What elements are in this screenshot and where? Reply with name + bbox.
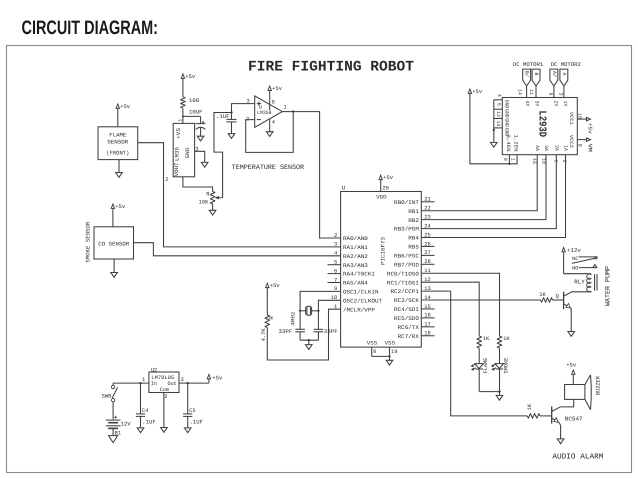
svg-text:.1UF: .1UF bbox=[216, 113, 229, 120]
wire RC3 to relay driver bbox=[421, 299, 540, 301]
svg-text:16: 16 bbox=[577, 113, 583, 119]
svg-text:SMOKE SENSOR: SMOKE SENSOR bbox=[85, 221, 92, 263]
svg-text:4MHz: 4MHz bbox=[291, 312, 297, 326]
svg-text:PIC16F73: PIC16F73 bbox=[380, 237, 386, 265]
crystal 4MHz label bbox=[291, 312, 297, 326]
wire RB4 to L293D 1A bbox=[421, 155, 565, 238]
svg-text:B/: B/ bbox=[524, 71, 530, 77]
svg-text:RA2/AN2: RA2/AN2 bbox=[343, 253, 368, 260]
LED smoke bbox=[491, 348, 509, 391]
ground pot 10K bbox=[209, 204, 216, 215]
transistor BC547 bbox=[552, 406, 583, 439]
wire RC0 to smoke LED bbox=[421, 273, 499, 336]
svg-text:4A: 4A bbox=[534, 145, 540, 151]
transistor Q relay driver bbox=[556, 291, 591, 332]
capacitor .1UF temp bbox=[216, 111, 237, 133]
svg-text:CO SENSOR: CO SENSOR bbox=[98, 240, 130, 247]
schematic title bbox=[248, 60, 414, 76]
svg-text:1K: 1K bbox=[503, 336, 510, 342]
ground opamp pin 4 bbox=[266, 119, 275, 137]
potentiometer R 10K bbox=[199, 192, 223, 206]
svg-text:3: 3 bbox=[246, 99, 249, 105]
pin stubs PIC right bbox=[421, 202, 434, 336]
ground relay transistor bbox=[568, 332, 575, 337]
wire LED cathodes join bbox=[479, 390, 500, 395]
capacitor 10UF polarized bbox=[183, 109, 206, 137]
svg-text:RB6/PGC: RB6/PGC bbox=[394, 252, 420, 259]
svg-text:13: 13 bbox=[495, 120, 501, 126]
svg-text:NC: NC bbox=[572, 256, 578, 262]
svg-text:1Y: 1Y bbox=[562, 100, 568, 106]
pin 3 opamp bbox=[246, 99, 249, 105]
svg-text:10UF: 10UF bbox=[189, 109, 202, 116]
wire flame sensor to RA1 bbox=[138, 143, 341, 247]
ground C5 bbox=[184, 428, 191, 433]
pin 3 LM35 GND bbox=[195, 147, 205, 163]
svg-text:9: 9 bbox=[502, 158, 508, 161]
op-amp U1 LM358 bbox=[255, 96, 283, 127]
audio alarm label bbox=[552, 452, 603, 461]
svg-text:+5v: +5v bbox=[566, 362, 577, 369]
buzzer BZ1 bbox=[565, 375, 602, 410]
ground LEDs bbox=[496, 395, 503, 400]
svg-text:RB4: RB4 bbox=[408, 235, 419, 242]
svg-text:8: 8 bbox=[373, 349, 376, 355]
svg-text:8: 8 bbox=[577, 144, 583, 147]
svg-text:+5v: +5v bbox=[185, 73, 196, 80]
power +5v buzzer bbox=[566, 362, 577, 385]
svg-text:4.7K: 4.7K bbox=[261, 328, 267, 342]
svg-text:Out: Out bbox=[168, 381, 177, 387]
svg-text:19: 19 bbox=[391, 349, 397, 355]
svg-text:12V: 12V bbox=[121, 421, 132, 428]
pin 1 opamp output bbox=[282, 105, 294, 113]
svg-text:1: 1 bbox=[284, 105, 287, 111]
svg-text:Com: Com bbox=[160, 387, 169, 393]
svg-text:VCC1: VCC1 bbox=[568, 112, 574, 125]
L293D VCC2 pin 8 VM bbox=[568, 135, 594, 152]
relay coil RLY bbox=[564, 274, 597, 292]
svg-text:RB2: RB2 bbox=[408, 217, 419, 224]
microcontroller U3 PIC16F73 bbox=[331, 185, 431, 348]
wire RC2 to audio alarm bbox=[421, 291, 527, 416]
svg-text:1K: 1K bbox=[483, 336, 490, 342]
crystal Y1 4MHz bbox=[300, 306, 318, 315]
svg-text:RC5/SDO: RC5/SDO bbox=[394, 315, 420, 322]
flame sensor box bbox=[98, 127, 138, 160]
svg-text:VCC2: VCC2 bbox=[568, 135, 574, 148]
resistor 1K audio base bbox=[527, 403, 552, 418]
resistor 1K relay base bbox=[539, 292, 563, 302]
resistor 1K smoke LED bbox=[497, 336, 510, 348]
wire OSC1 to crystal bbox=[299, 291, 341, 312]
svg-text:2Y: 2Y bbox=[552, 100, 558, 106]
svg-text:GND: GND bbox=[185, 148, 191, 159]
wire buzzer to collector bbox=[560, 399, 574, 407]
temperature sensor label bbox=[232, 164, 304, 172]
capacitor C5 .1UF bbox=[183, 382, 203, 428]
switch SWB bbox=[102, 383, 118, 419]
svg-text:1: 1 bbox=[142, 377, 145, 383]
ground flame sensor bbox=[116, 160, 123, 178]
L293D input labels bottom bbox=[531, 145, 569, 164]
svg-text:CIRCUIT DIAGRAM:: CIRCUIT DIAGRAM: bbox=[22, 17, 159, 39]
svg-text:In: In bbox=[151, 381, 157, 387]
svg-text:4Y: 4Y bbox=[524, 100, 530, 106]
svg-text:2: 2 bbox=[165, 177, 168, 183]
svg-text:RB0/INT: RB0/INT bbox=[394, 199, 420, 206]
svg-text:RA3/AN3: RA3/AN3 bbox=[343, 262, 368, 269]
svg-text:SENSOR: SENSOR bbox=[107, 139, 129, 146]
wire opamp feedback bbox=[246, 112, 294, 153]
svg-text:2A: 2A bbox=[553, 145, 559, 151]
svg-text:.1UF: .1UF bbox=[190, 418, 203, 425]
svg-text:RC3/SCK: RC3/SCK bbox=[394, 297, 420, 304]
svg-text:3: 3 bbox=[181, 377, 184, 383]
wire to opamp noninverting input bbox=[232, 104, 255, 113]
svg-text:BC547: BC547 bbox=[565, 416, 583, 423]
pin 2 LM35 VOUT bbox=[165, 177, 168, 183]
ground .1UF cap bbox=[228, 134, 235, 139]
svg-text:A/: A/ bbox=[551, 71, 557, 77]
svg-text:L293D: L293D bbox=[536, 111, 548, 138]
ground BC547 bbox=[557, 439, 564, 444]
wire RC1 to flame LED bbox=[421, 282, 479, 336]
L293D output pins top bbox=[517, 86, 568, 107]
ground L293D bbox=[491, 142, 498, 147]
wire OSC2 to crystal bbox=[317, 300, 340, 312]
pins VSS 8 19 and ground bbox=[372, 347, 398, 360]
wire pot wiper to opamp input bbox=[214, 113, 232, 198]
svg-text:VSS: VSS bbox=[385, 341, 396, 347]
svg-text:1,2EN: 1,2EN bbox=[513, 135, 519, 152]
wire RB2 to L293D 3A bbox=[421, 155, 546, 220]
svg-text:+5v: +5v bbox=[472, 88, 483, 95]
svg-text:33PF: 33PF bbox=[324, 328, 338, 335]
svg-text:C5: C5 bbox=[189, 408, 195, 414]
svg-text:B: B bbox=[533, 72, 539, 75]
svg-text:RC4/SDI: RC4/SDI bbox=[394, 306, 419, 313]
L293D VCC1 pin 16 +5v bbox=[568, 112, 594, 134]
svg-text:3A: 3A bbox=[543, 145, 549, 151]
svg-text:2: 2 bbox=[561, 159, 567, 162]
wire LM35 VOUT to pot bbox=[183, 177, 213, 192]
svg-text:11: 11 bbox=[528, 89, 534, 95]
svg-text:4: 4 bbox=[334, 251, 337, 257]
svg-text:1K: 1K bbox=[527, 403, 533, 410]
svg-text:10: 10 bbox=[540, 158, 546, 164]
svg-text:Q: Q bbox=[556, 294, 559, 300]
svg-text:4: 4 bbox=[272, 120, 275, 126]
svg-text:LM35: LM35 bbox=[174, 147, 180, 161]
motor driver U4 L293D bbox=[502, 98, 577, 155]
svg-text:AUDIO ALARM: AUDIO ALARM bbox=[552, 452, 603, 461]
power +5v VDD pin 20 bbox=[379, 174, 394, 191]
wire resistor to LM35 bbox=[182, 108, 184, 123]
svg-text:RB1: RB1 bbox=[408, 208, 419, 215]
svg-text:15: 15 bbox=[531, 158, 537, 164]
capacitor 33PF left bbox=[278, 311, 305, 340]
svg-text:RC0/T1OSO: RC0/T1OSO bbox=[387, 270, 420, 277]
svg-text:6: 6 bbox=[547, 92, 553, 95]
relay contacts NC NO bbox=[572, 256, 598, 271]
svg-text:+5v: +5v bbox=[120, 103, 131, 110]
power +12v relay bbox=[562, 247, 582, 274]
svg-text:VOUT: VOUT bbox=[174, 162, 180, 177]
svg-text:VM: VM bbox=[586, 144, 593, 152]
svg-text:SMOKE: SMOKE bbox=[504, 358, 510, 374]
wire CO sensor to RA2 bbox=[134, 243, 341, 256]
svg-text:/MCLR/VPP: /MCLR/VPP bbox=[343, 306, 376, 313]
svg-text:FIRE FIGHTING ROBOT: FIRE FIGHTING ROBOT bbox=[248, 60, 414, 76]
resistor 100 bbox=[181, 97, 200, 108]
svg-text:VDD: VDD bbox=[376, 195, 387, 201]
svg-text:7: 7 bbox=[552, 159, 558, 162]
svg-text:33PF: 33PF bbox=[278, 328, 292, 335]
svg-text:GND: GND bbox=[504, 100, 510, 109]
svg-text:12: 12 bbox=[495, 111, 501, 117]
svg-text:2: 2 bbox=[334, 233, 337, 239]
CO sensor box bbox=[94, 227, 134, 259]
svg-text:RA1/AN1: RA1/AN1 bbox=[343, 244, 369, 251]
power +5v flame sensor bbox=[116, 103, 131, 127]
regulator U2 LM78L05 bbox=[149, 367, 179, 393]
svg-text:C4: C4 bbox=[142, 408, 148, 414]
svg-text:RC1/T1OSI: RC1/T1OSI bbox=[387, 279, 419, 286]
svg-text:3,4EN: 3,4EN bbox=[505, 135, 511, 152]
svg-text:2: 2 bbox=[164, 394, 167, 400]
ground regulator bbox=[161, 428, 168, 433]
L293D GND pins 4 5 12 13 bbox=[493, 94, 510, 143]
svg-text:3: 3 bbox=[558, 92, 564, 95]
svg-text:LM358: LM358 bbox=[257, 110, 272, 116]
svg-text:1A: 1A bbox=[563, 145, 569, 151]
power +5v temperature chain bbox=[181, 73, 196, 97]
battery B1 12V bbox=[106, 416, 132, 437]
pin 1 LM35 +VS bbox=[178, 119, 184, 122]
wire RB1 to L293D 4A bbox=[421, 155, 537, 211]
svg-text:3Y: 3Y bbox=[533, 100, 539, 106]
wire MCLR pullup to pin 1 bbox=[267, 309, 340, 360]
svg-text:RC6/TX: RC6/TX bbox=[398, 324, 420, 331]
svg-text:RC2/CCP1: RC2/CCP1 bbox=[391, 288, 420, 295]
svg-text:BUZZER: BUZZER bbox=[595, 375, 601, 395]
svg-text:4: 4 bbox=[496, 94, 502, 97]
wire regulator output bbox=[179, 377, 209, 383]
wire opamp output to RA0 bbox=[293, 112, 340, 238]
svg-text:+VS: +VS bbox=[176, 128, 182, 139]
power +5v L293D enable bbox=[468, 88, 517, 165]
svg-text:RB7/PGD: RB7/PGD bbox=[394, 261, 420, 268]
svg-text:+5v: +5v bbox=[115, 203, 126, 210]
svg-text:NO: NO bbox=[572, 266, 578, 272]
svg-text:3: 3 bbox=[334, 242, 337, 248]
power +5v opamp pin 8 bbox=[268, 85, 283, 110]
ground crystal bbox=[306, 345, 313, 350]
L293D EN pins 9 1 bbox=[502, 135, 519, 161]
connector DC MOTOR2 bbox=[550, 61, 581, 86]
pin 2 regulator ground bbox=[164, 393, 168, 428]
resistor 1K flame LED bbox=[477, 336, 490, 348]
ground PIC VSS bbox=[386, 360, 393, 365]
svg-text:DC MOTOR1: DC MOTOR1 bbox=[513, 61, 544, 68]
svg-text:OSC2/CLKOUT: OSC2/CLKOUT bbox=[343, 297, 383, 304]
power +5v CO sensor bbox=[111, 203, 126, 227]
resistor R 4.7K bbox=[261, 315, 275, 341]
svg-text:VSS: VSS bbox=[367, 341, 378, 347]
water pump label bbox=[605, 266, 613, 306]
svg-text:RA0/AN0: RA0/AN0 bbox=[343, 235, 369, 242]
svg-text:5: 5 bbox=[496, 103, 502, 106]
svg-text:.1UF: .1UF bbox=[142, 418, 155, 425]
pin stubs PIC left bbox=[328, 265, 341, 283]
svg-text:+5v: +5v bbox=[383, 174, 394, 181]
smoke sensor label bbox=[85, 221, 92, 263]
svg-text:+5v: +5v bbox=[270, 282, 281, 289]
svg-text:20: 20 bbox=[382, 185, 388, 191]
LED flame bbox=[471, 348, 489, 391]
svg-text:(FRONT): (FRONT) bbox=[106, 150, 129, 157]
svg-text:+12v: +12v bbox=[567, 247, 581, 254]
svg-text:1: 1 bbox=[510, 158, 516, 161]
wire crystal caps join bbox=[300, 339, 318, 345]
page title bbox=[22, 17, 159, 39]
connector DC MOTOR1 bbox=[513, 61, 544, 86]
svg-text:100: 100 bbox=[189, 97, 200, 104]
svg-text:10K: 10K bbox=[199, 199, 209, 205]
svg-text:OSC1/CLKIN: OSC1/CLKIN bbox=[343, 289, 379, 296]
ground battery bbox=[109, 436, 118, 443]
wire RB3 to L293D 2A bbox=[421, 155, 556, 229]
capacitor 33PF right bbox=[314, 311, 338, 340]
svg-text:TEMPERATURE SENSOR: TEMPERATURE SENSOR bbox=[232, 164, 304, 172]
svg-text:RB3/PGM: RB3/PGM bbox=[394, 226, 419, 233]
svg-text:WATER PUMP: WATER PUMP bbox=[605, 266, 613, 306]
svg-text:8: 8 bbox=[272, 99, 275, 105]
svg-text:SWB: SWB bbox=[102, 393, 113, 399]
pin 2 opamp bbox=[246, 116, 249, 122]
svg-text:A: A bbox=[561, 72, 567, 75]
svg-text:RC7/RX: RC7/RX bbox=[398, 333, 420, 340]
ground LM35 bbox=[201, 162, 208, 167]
ground CO sensor bbox=[111, 259, 118, 277]
svg-text:+5v: +5v bbox=[586, 123, 593, 135]
LM35 sensor U1 bbox=[173, 123, 194, 176]
svg-text:GND: GND bbox=[504, 109, 510, 118]
svg-text:RA5/AN4: RA5/AN4 bbox=[343, 280, 369, 287]
svg-text:RLY: RLY bbox=[574, 278, 585, 285]
svg-text:14: 14 bbox=[517, 89, 523, 95]
svg-text:GND: GND bbox=[504, 118, 510, 127]
ground 10UF cap bbox=[197, 136, 204, 141]
svg-text:+5v: +5v bbox=[272, 85, 283, 92]
capacitor C4 .1UF bbox=[136, 382, 156, 428]
ground C4 bbox=[137, 428, 144, 433]
wire switch to regulator bbox=[113, 377, 149, 383]
svg-text:DC MOTOR2: DC MOTOR2 bbox=[551, 61, 581, 68]
svg-text:RA4/T0CKI: RA4/T0CKI bbox=[343, 271, 375, 278]
svg-text:RB5: RB5 bbox=[408, 244, 419, 251]
svg-text:FLAME: FLAME bbox=[483, 358, 489, 374]
svg-text:1: 1 bbox=[178, 119, 184, 122]
power +5v regulator output bbox=[207, 375, 223, 384]
svg-text:+5v: +5v bbox=[212, 375, 223, 382]
svg-text:1K: 1K bbox=[539, 292, 546, 298]
svg-text:U: U bbox=[342, 185, 346, 192]
power +5v MCLR pullup bbox=[266, 282, 281, 315]
